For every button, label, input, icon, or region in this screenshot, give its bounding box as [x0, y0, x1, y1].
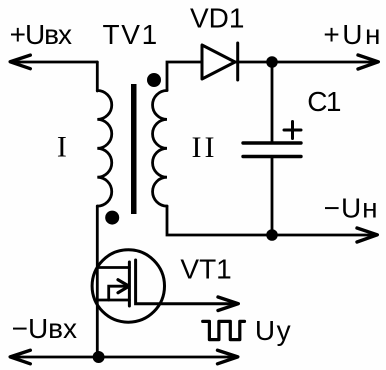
wire capacitor bottom — [271, 158, 274, 235]
arrow control return right — [218, 350, 238, 364]
junction top node — [266, 56, 278, 68]
svg-text:+Uн: +Uн — [323, 19, 383, 50]
transformer TV1 primary winding I — [97, 91, 111, 207]
VT1 substrate arrow — [109, 280, 129, 300]
svg-text:VD1: VD1 — [190, 3, 244, 34]
svg-text:−Uвх: −Uвх — [12, 313, 77, 344]
primary polarity dot — [105, 211, 119, 225]
VT1 gate electrode — [136, 260, 237, 304]
VT1 channel bar — [128, 262, 131, 306]
wire secondary top to diode — [167, 62, 378, 91]
arrow -Uvx left — [10, 350, 30, 364]
arrow -Un output — [357, 228, 377, 242]
arrow gate control — [218, 297, 238, 311]
wire to capacitor top — [271, 62, 274, 142]
svg-text:VT1: VT1 — [180, 254, 231, 285]
wire secondary bottom rail — [167, 206, 377, 235]
svg-text:I: I — [57, 130, 67, 163]
junction bottom-right node — [266, 229, 278, 241]
svg-text:Uу: Uу — [255, 315, 292, 346]
junction bottom-left node — [93, 351, 105, 363]
svg-text:C1: C1 — [307, 86, 341, 117]
capacitor C1 — [243, 122, 301, 157]
transformer TV1 secondary winding II — [153, 91, 167, 207]
transistor VT1 circle — [92, 250, 164, 322]
svg-text:II: II — [192, 131, 218, 164]
wire primary top — [96, 62, 99, 91]
secondary polarity dot — [147, 73, 161, 87]
transformer core — [131, 84, 137, 214]
VT1 drain lead — [97, 266, 129, 269]
diode VD1 — [202, 43, 238, 80]
control signal square wave — [203, 321, 245, 339]
VT1 source lead — [97, 299, 129, 302]
wire drain vertical — [96, 206, 99, 357]
svg-text:−Uн: −Uн — [324, 193, 379, 224]
svg-text:+Uвх: +Uвх — [10, 19, 72, 50]
arrow +Un output — [358, 55, 378, 69]
svg-text:TV1: TV1 — [103, 19, 159, 50]
node +Uvx input arrow — [10, 55, 97, 69]
wire bottom rail — [11, 356, 237, 359]
